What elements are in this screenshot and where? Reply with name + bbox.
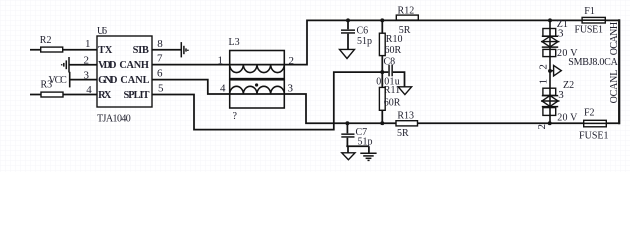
svg-text:CANH: CANH (119, 60, 148, 71)
svg-text:R13: R13 (397, 111, 414, 122)
svg-text:R11: R11 (384, 85, 400, 96)
svg-text:?: ? (233, 111, 238, 122)
svg-text:FUSE1: FUSE1 (579, 131, 609, 142)
svg-text:SPLIT: SPLIT (124, 90, 150, 101)
svg-text:SMBJ8.0CA: SMBJ8.0CA (568, 57, 618, 68)
svg-text:2: 2 (537, 64, 549, 70)
svg-text:VCC: VCC (49, 75, 68, 86)
svg-text:60R: 60R (384, 97, 401, 108)
svg-text:8: 8 (157, 38, 163, 50)
svg-text:RX: RX (98, 90, 112, 101)
svg-text:1: 1 (218, 55, 224, 67)
svg-text:VDD: VDD (98, 60, 116, 71)
svg-text:1: 1 (85, 38, 91, 50)
svg-text:FUSE1: FUSE1 (575, 25, 604, 36)
svg-text:2: 2 (536, 124, 548, 130)
svg-text:STB: STB (133, 45, 149, 56)
svg-text:TJA1040: TJA1040 (97, 114, 131, 125)
svg-text:51p: 51p (357, 36, 372, 47)
svg-text:60R: 60R (385, 45, 402, 56)
svg-text:F1: F1 (584, 6, 595, 17)
svg-text:5: 5 (158, 83, 164, 95)
svg-text:U6: U6 (97, 26, 107, 37)
svg-text:20 V: 20 V (557, 112, 578, 123)
svg-text:L3: L3 (229, 37, 240, 48)
svg-text:4: 4 (220, 83, 226, 95)
svg-text:C6: C6 (357, 26, 369, 37)
svg-text:R12: R12 (398, 5, 415, 16)
svg-text:7: 7 (157, 53, 163, 65)
svg-text:5R: 5R (397, 128, 409, 139)
svg-text:OCANL: OCANL (609, 70, 620, 104)
svg-text:GND: GND (98, 75, 117, 86)
svg-text:OCANH: OCANH (609, 22, 620, 55)
svg-text:6: 6 (157, 68, 163, 80)
svg-text:51p: 51p (358, 137, 373, 148)
svg-text:R10: R10 (386, 34, 403, 45)
svg-text:R2: R2 (40, 35, 52, 46)
svg-text:TX: TX (98, 45, 113, 56)
svg-text:1: 1 (537, 79, 549, 85)
svg-text:CANL: CANL (120, 75, 149, 86)
svg-text:F2: F2 (584, 107, 595, 118)
svg-text:3: 3 (558, 27, 564, 39)
svg-text:3: 3 (558, 89, 564, 101)
svg-text:Z2: Z2 (563, 80, 574, 91)
svg-text:3: 3 (288, 83, 294, 95)
